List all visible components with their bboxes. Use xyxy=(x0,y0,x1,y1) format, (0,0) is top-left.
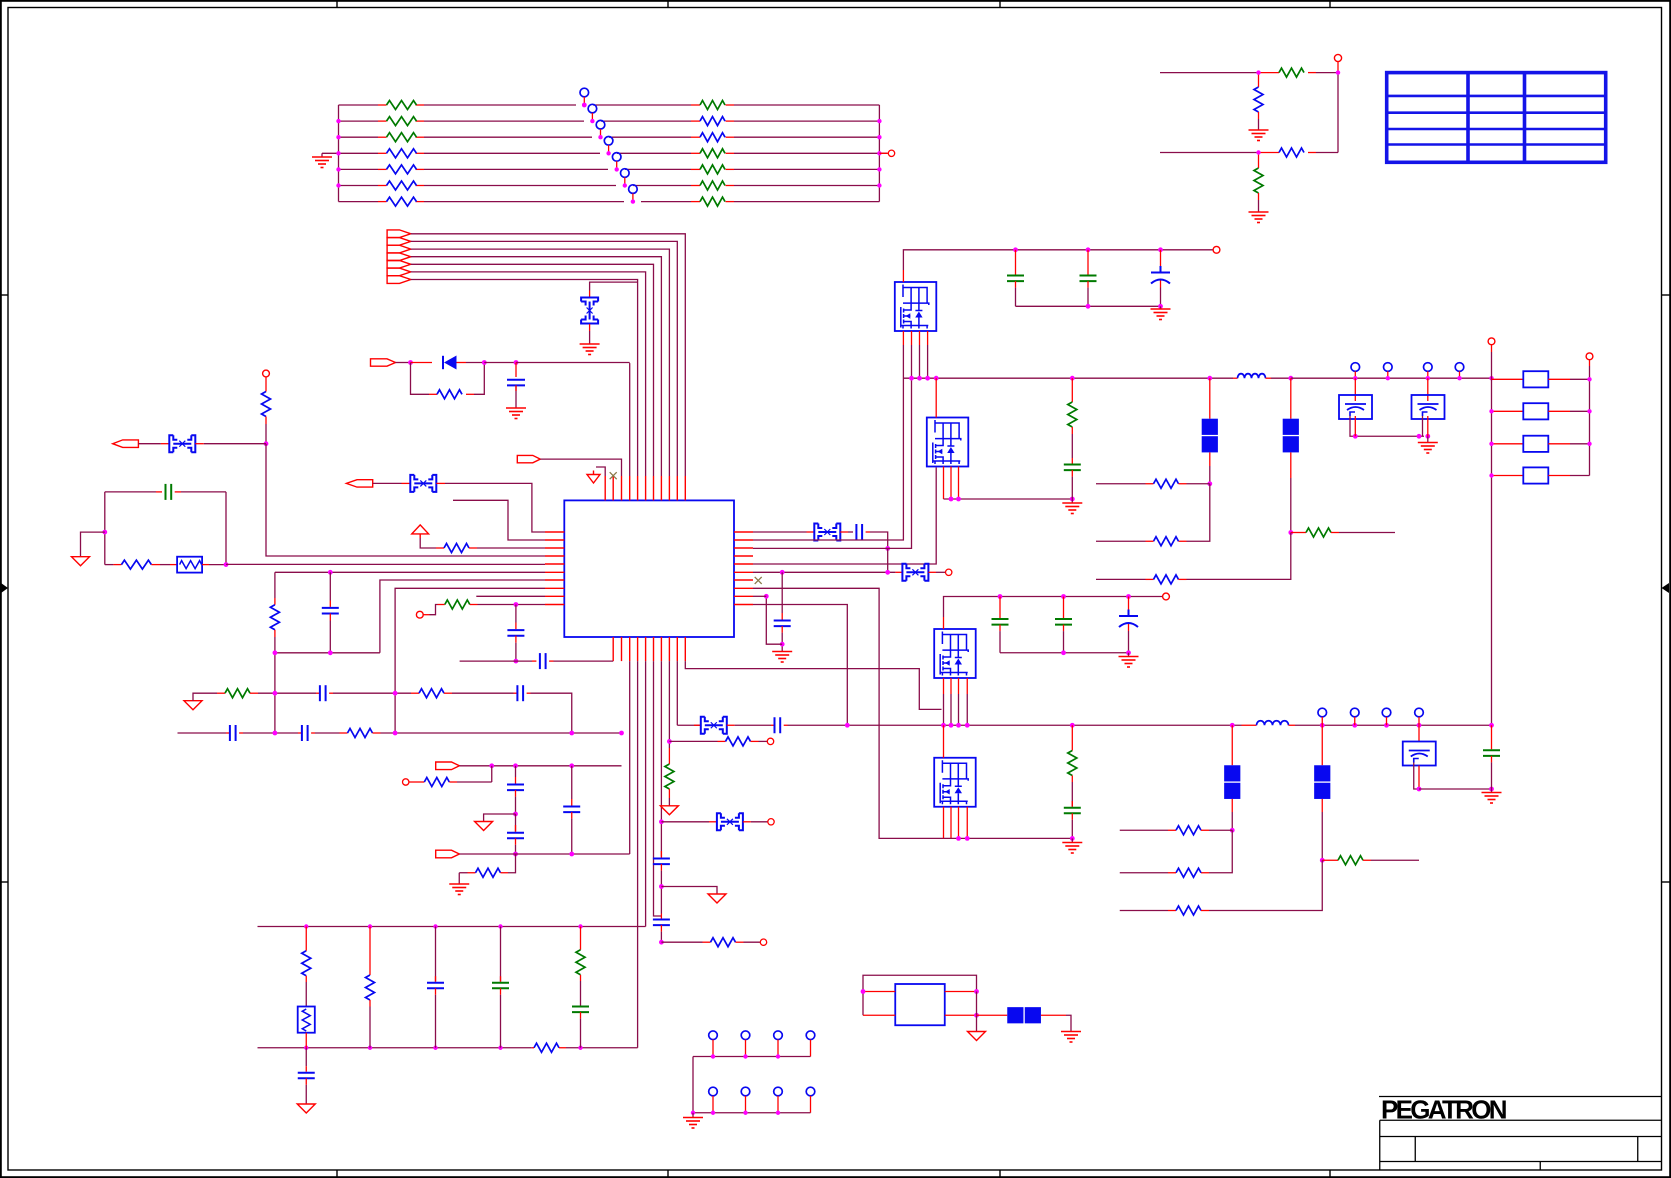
node xyxy=(1384,723,1389,728)
drain stub xyxy=(935,378,937,417)
wire xyxy=(457,781,492,783)
no-connect mark pin2 xyxy=(610,472,617,479)
node xyxy=(393,731,398,736)
node xyxy=(489,763,494,768)
rail continues xyxy=(788,724,1242,726)
diode D1 xyxy=(443,356,457,370)
node xyxy=(1013,247,1018,252)
wire col pin6 xyxy=(645,661,647,926)
right bus pin xyxy=(1586,353,1593,360)
resistor row10 xyxy=(445,600,470,609)
node xyxy=(1417,787,1422,792)
node xyxy=(1417,434,1422,439)
right bus wire xyxy=(878,105,880,202)
node xyxy=(925,376,930,381)
node xyxy=(1353,434,1358,439)
feedback resistor row C xyxy=(1120,910,1168,912)
feedback resistor row C xyxy=(1096,578,1146,580)
node xyxy=(659,819,664,824)
ground arrow xyxy=(72,557,90,566)
capacitor series xyxy=(856,524,862,540)
bus wire 6 xyxy=(411,272,646,476)
resistor horizontal blue xyxy=(1259,152,1280,154)
wire top branch xyxy=(411,362,433,364)
node xyxy=(273,691,278,696)
node xyxy=(569,731,574,736)
connector arrow 6 xyxy=(387,268,411,276)
node xyxy=(1288,530,1293,535)
node xyxy=(949,723,954,728)
connector arrow 1 xyxy=(387,230,411,238)
wire xyxy=(258,692,316,694)
input arrow xyxy=(371,359,396,366)
capacitor green xyxy=(1063,597,1065,619)
node xyxy=(1061,594,1066,599)
resistor left row6 xyxy=(387,181,417,190)
drain wire up and VIN rail xyxy=(903,250,1213,270)
resistor right row7 xyxy=(700,197,725,206)
node xyxy=(941,723,946,728)
resistor blue xyxy=(348,729,373,738)
load box 1 xyxy=(1492,378,1524,380)
capacitor series xyxy=(230,725,236,741)
wire down and left xyxy=(1209,860,1322,910)
pin stubs left xyxy=(545,532,564,605)
pin circle VIN xyxy=(1213,246,1220,253)
right bus wire xyxy=(1589,366,1591,476)
node xyxy=(1425,434,1430,439)
inductor L xyxy=(1233,377,1238,379)
capacitor in box 3 xyxy=(1418,725,1420,741)
node dots upper rail xyxy=(304,924,583,928)
header pin circles xyxy=(1318,708,1423,717)
bus row 2 xyxy=(693,1112,811,1114)
row 942 resistor to pin xyxy=(661,941,702,943)
bus wire 2 xyxy=(411,241,678,476)
loop verticals xyxy=(105,492,226,565)
below capacitor to ground xyxy=(305,1048,307,1066)
wire row9 xyxy=(476,595,545,597)
node xyxy=(1230,828,1235,833)
connector arrow 7 xyxy=(387,276,411,284)
ground xyxy=(506,408,526,419)
wire up right xyxy=(474,363,484,395)
node xyxy=(956,723,961,728)
node xyxy=(1086,247,1091,252)
resistor left row1 xyxy=(387,101,417,110)
wire row 3 xyxy=(339,136,379,138)
node xyxy=(273,650,278,655)
node xyxy=(1417,723,1422,728)
connector arrow 3 xyxy=(387,245,411,253)
fuse xyxy=(814,524,840,541)
node xyxy=(513,812,518,817)
no-connect row7 xyxy=(755,577,762,584)
wire row 7 xyxy=(339,201,379,203)
load box 2 xyxy=(1492,410,1524,412)
wire row 4 xyxy=(322,152,378,154)
node xyxy=(569,763,574,768)
node xyxy=(956,497,961,502)
node A xyxy=(408,360,413,365)
upper rail xyxy=(258,926,646,928)
ground xyxy=(580,344,600,355)
node xyxy=(974,1013,979,1018)
fuse squares horizontal xyxy=(977,1014,1008,1016)
resistor left row3 xyxy=(387,133,417,142)
resistor left row5 xyxy=(387,165,417,174)
node xyxy=(1070,723,1075,728)
node xyxy=(273,731,278,736)
junction dots xyxy=(1256,70,1340,154)
wrap wire xyxy=(863,975,977,1015)
row 741 resistor to pin xyxy=(669,740,717,742)
fuse F filled squares xyxy=(1283,419,1299,435)
transistor Q2 dual mosfet xyxy=(927,418,969,467)
ground arrow below xyxy=(976,1015,978,1031)
node xyxy=(965,836,970,841)
node xyxy=(619,731,624,736)
wire xyxy=(515,385,517,408)
wire row 1 xyxy=(339,104,379,106)
input arrow row1 xyxy=(346,480,372,487)
divider chain mid xyxy=(1071,725,1073,750)
fuse squares branch 3 xyxy=(1231,725,1233,765)
riser to row 782 xyxy=(491,766,493,782)
wire row3 xyxy=(420,538,436,548)
capacitor xyxy=(660,851,662,858)
bus wire 5 xyxy=(411,264,654,476)
pin circles row 2 xyxy=(709,1087,815,1096)
resistor pulldown xyxy=(668,748,670,764)
node xyxy=(1158,247,1163,252)
fuse squares branch xyxy=(1290,378,1292,419)
row9 wire xyxy=(753,595,766,597)
node xyxy=(659,884,664,889)
bus wire 7 xyxy=(411,280,638,477)
node xyxy=(1070,836,1075,841)
row5 wire gate M2 xyxy=(753,468,936,565)
row 873 ground xyxy=(458,873,460,884)
pin circle top xyxy=(1337,62,1339,73)
node C xyxy=(514,360,519,365)
node xyxy=(917,376,922,381)
capacitor chain vertical xyxy=(329,572,331,600)
node xyxy=(1207,376,1212,381)
node xyxy=(861,989,866,994)
resistor leads xyxy=(378,105,734,202)
wire xyxy=(484,362,516,364)
resistor right row5 xyxy=(700,165,725,174)
loop bottom wire xyxy=(105,564,114,566)
input arrow row 854 xyxy=(436,850,460,858)
header pin circles on rail xyxy=(1351,363,1464,372)
resistor right row2 xyxy=(700,117,725,126)
resistor xyxy=(121,560,151,569)
wire col pin8 chain xyxy=(660,661,662,856)
node xyxy=(514,659,519,664)
row 822 fuse to pin xyxy=(661,821,709,823)
resistor on lower rail xyxy=(534,1043,559,1052)
resistor R xyxy=(429,393,437,395)
wire row 854 xyxy=(459,853,629,855)
main VCC rail xyxy=(677,724,701,726)
load box 3 xyxy=(1492,443,1524,445)
wire col pin4 xyxy=(629,661,631,854)
capacitor 2 xyxy=(660,914,662,919)
wire row6 xyxy=(275,571,545,573)
resistor row 782 xyxy=(409,781,424,783)
wire row5 xyxy=(226,563,545,565)
pin stubs xyxy=(863,992,977,1016)
RC loop top wire xyxy=(105,491,156,493)
wire upper xyxy=(1160,72,1259,74)
load box 4 xyxy=(1492,475,1524,477)
left link wire xyxy=(692,1057,694,1113)
branch capacitor green xyxy=(500,927,502,982)
capacitor C xyxy=(507,380,525,386)
ground xyxy=(1249,130,1269,141)
capacitor C green xyxy=(1087,250,1089,275)
resistor blue xyxy=(419,689,444,698)
feedback resistor row A xyxy=(1096,483,1146,485)
wire col pin7 jog xyxy=(654,661,662,916)
capacitor below xyxy=(515,605,517,623)
node xyxy=(102,530,107,535)
crystal Y1 xyxy=(581,298,598,324)
node xyxy=(264,441,269,446)
decouple chain x782 xyxy=(781,572,783,613)
regulator U2 body xyxy=(895,984,945,1025)
drain stub from rail xyxy=(943,725,945,758)
capacitor series xyxy=(320,685,326,701)
pin circle xyxy=(1163,593,1170,600)
ground xyxy=(1427,436,1429,442)
wire 887 down xyxy=(887,548,889,572)
input arrow xyxy=(113,440,139,448)
branch capacitor blue xyxy=(435,927,437,982)
ground arrow stub xyxy=(484,814,516,822)
wire xyxy=(373,482,402,484)
pin circle feed xyxy=(263,370,270,377)
capacitor green xyxy=(1071,458,1073,464)
wire xyxy=(204,443,266,445)
ground xyxy=(1249,212,1269,223)
node xyxy=(974,989,979,994)
fuse squares branch 4 xyxy=(1321,725,1323,765)
capacitor polarized xyxy=(1128,597,1130,615)
node xyxy=(998,594,1003,599)
rail after inductor xyxy=(1291,377,1492,379)
node xyxy=(965,723,970,728)
capacitor x571 xyxy=(571,766,573,799)
node xyxy=(513,852,518,857)
wire link xyxy=(766,596,782,644)
connector arrow 4 xyxy=(387,253,411,261)
feedback resistor row B xyxy=(1209,830,1232,873)
wire row 6 xyxy=(339,185,379,187)
capacitor green on sense xyxy=(1491,725,1493,749)
wire row 766 xyxy=(459,765,621,767)
sense resistor green xyxy=(1322,859,1338,861)
pin circle feed row 782 xyxy=(403,779,409,785)
wire xyxy=(1258,119,1260,130)
resistor left row2 xyxy=(387,117,417,126)
input arrow xyxy=(517,455,540,462)
wire to pin row1 xyxy=(445,483,545,532)
capacitor in box 1 xyxy=(1354,378,1356,401)
ground xyxy=(1071,499,1073,503)
capacitor 2 xyxy=(515,814,517,832)
feedback resistor row A xyxy=(1120,829,1168,831)
node xyxy=(780,642,785,647)
node xyxy=(1126,650,1131,655)
output pin right xyxy=(879,152,888,154)
wire xyxy=(596,467,605,476)
ground xyxy=(692,1113,694,1118)
wire to ground xyxy=(1066,1015,1071,1031)
drain riser and aux rail xyxy=(943,617,945,629)
wire corner up xyxy=(508,854,516,873)
transistor Q3 dual mosfet xyxy=(934,629,976,678)
node xyxy=(1320,858,1325,863)
row8 wire gate M4 xyxy=(753,588,944,838)
source bus row xyxy=(944,837,1073,839)
wire row7 riser xyxy=(380,580,545,653)
right border centre arrow xyxy=(1662,583,1670,593)
row 733 wire xyxy=(178,732,227,734)
resistor left row7 xyxy=(387,197,417,206)
row6 wire xyxy=(753,571,895,573)
sense pin top xyxy=(1488,338,1495,345)
ground stub wire xyxy=(81,532,105,557)
wire xyxy=(848,531,853,533)
cap return bus xyxy=(1016,305,1161,307)
fuse row1 xyxy=(410,475,436,492)
capacitor chain x515 xyxy=(515,766,517,777)
ground spur xyxy=(661,887,717,895)
node xyxy=(1352,723,1357,728)
node dots left column xyxy=(1489,409,1493,478)
wire xyxy=(590,282,638,290)
3V3 rail xyxy=(903,377,1233,379)
node xyxy=(328,570,333,575)
bus row 1 xyxy=(693,1056,811,1058)
ground xyxy=(1491,789,1493,793)
wire xyxy=(396,362,411,364)
ground xyxy=(1071,838,1073,842)
ground xyxy=(1160,306,1162,309)
wire joining row xyxy=(275,652,380,654)
resistor green xyxy=(225,689,250,698)
mosfet source stubs to rail xyxy=(903,331,927,345)
wire row 661 xyxy=(460,660,532,662)
ground xyxy=(772,652,792,663)
transistor Q1 dual mosfet xyxy=(895,282,937,331)
connector pin circles mid xyxy=(580,88,637,193)
wire row 2 xyxy=(339,120,379,122)
pin stubs bottom xyxy=(613,637,685,661)
wire row 5 xyxy=(339,168,379,170)
node xyxy=(909,376,914,381)
source stubs down xyxy=(944,467,959,500)
bus wire 1 xyxy=(411,234,686,476)
wire xyxy=(193,693,217,701)
node xyxy=(1086,304,1091,309)
wire to cap xyxy=(1419,788,1492,790)
right vertical xyxy=(976,992,978,1016)
wire corner down xyxy=(870,532,888,548)
source bus xyxy=(944,498,1073,500)
node xyxy=(885,546,890,551)
IC U1 xyxy=(564,500,734,637)
row2 wire gate M1 xyxy=(753,345,903,540)
node xyxy=(667,739,672,744)
node xyxy=(1288,376,1293,381)
resistor row3 xyxy=(444,544,469,553)
wire xyxy=(589,331,591,344)
pin stubs xyxy=(1355,371,1459,378)
resistor right row1 xyxy=(700,101,725,110)
capacitor C polarized xyxy=(1160,250,1162,272)
pin stub xyxy=(589,291,591,298)
resistor chain vertical xyxy=(274,572,276,598)
wire lower xyxy=(1160,152,1259,154)
node xyxy=(1126,594,1131,599)
bus wire 3 xyxy=(411,249,670,476)
connector arrow 5 xyxy=(387,261,411,269)
wire xyxy=(457,362,467,364)
node xyxy=(764,594,769,599)
wire row 873 xyxy=(459,872,467,874)
Q3 source stubs xyxy=(944,678,968,694)
node dots right column xyxy=(1587,377,1591,446)
node xyxy=(513,763,518,768)
wire xyxy=(138,443,160,445)
capacitor green xyxy=(166,484,172,500)
boxed resistor vertical xyxy=(298,1007,315,1033)
row3 wire to rail xyxy=(753,345,912,548)
node xyxy=(934,376,939,381)
cap box stubs xyxy=(1354,416,1356,436)
wire col pin5 long xyxy=(637,661,639,1048)
wire xyxy=(265,424,267,444)
pin circles row 1 xyxy=(709,1031,815,1040)
node xyxy=(1061,650,1066,655)
wire vertical xyxy=(1337,73,1339,153)
fuse xyxy=(902,564,928,581)
node xyxy=(885,570,890,575)
branch resistor + thermistor xyxy=(305,927,307,951)
connector arrow 2 xyxy=(387,238,411,246)
capacitor series xyxy=(517,685,523,701)
node xyxy=(949,497,954,502)
power arrow up xyxy=(412,525,429,538)
feedback divider xyxy=(1071,378,1073,402)
node dots lower rail xyxy=(304,1046,583,1050)
node xyxy=(514,602,519,607)
resistor vertical green xyxy=(1258,153,1260,169)
ground xyxy=(321,153,323,157)
node xyxy=(956,836,961,841)
bus wire 4 xyxy=(411,257,662,476)
node xyxy=(1489,787,1494,792)
wire to IC pin4 riser xyxy=(516,363,630,477)
node xyxy=(1070,497,1075,502)
node xyxy=(845,723,850,728)
left border centre arrow xyxy=(1,583,8,593)
node xyxy=(1489,723,1494,728)
